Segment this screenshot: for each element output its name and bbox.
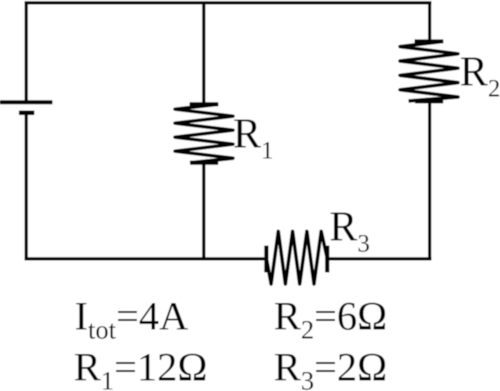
svg-text:R1=12Ω: R1=12Ω: [74, 344, 208, 391]
wire left lower: [25, 115, 28, 259]
wire bottom left: [25, 257, 268, 260]
wire bottom right: [326, 257, 432, 260]
wire right lower: [428, 102, 431, 259]
resistor R2: [400, 41, 458, 101]
wire middle lower: [202, 163, 205, 259]
svg-text:R3=2Ω: R3=2Ω: [274, 344, 387, 391]
resistor R1: [175, 104, 233, 163]
battery B1: [0, 102, 53, 113]
svg-text:R2=6Ω: R2=6Ω: [274, 293, 387, 344]
resistor R3: [266, 231, 327, 284]
wire top: [25, 1, 432, 4]
wire right upper: [428, 2, 431, 42]
wire left upper: [25, 2, 28, 101]
wire middle upper: [202, 2, 205, 104]
